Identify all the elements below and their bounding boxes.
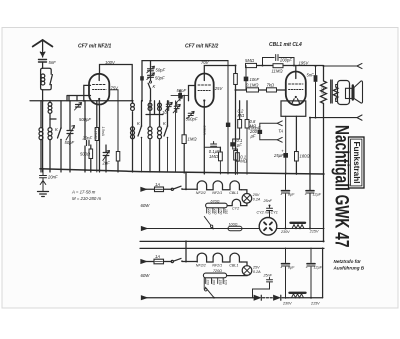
svg-text:0.15MΩ: 0.15MΩ (94, 128, 98, 140)
svg-text:CF7 mit NF2/2: CF7 mit NF2/2 (185, 44, 219, 50)
svg-text:230V: 230V (282, 302, 292, 306)
svg-text:K: K (163, 121, 166, 126)
svg-text:µF: µF (237, 142, 242, 147)
svg-text:1A: 1A (155, 182, 160, 187)
svg-text:1A: 1A (155, 254, 160, 259)
svg-text:CY2: CY2 (232, 207, 239, 211)
svg-text:NF2/1: NF2/1 (212, 191, 222, 195)
svg-text:12µF: 12µF (314, 266, 323, 270)
svg-text:7kΩ: 7kΩ (267, 83, 275, 88)
svg-text:60W: 60W (141, 203, 151, 208)
svg-text:50pF: 50pF (155, 76, 165, 81)
svg-text:10: 10 (162, 110, 167, 115)
svg-text:500pF: 500pF (186, 117, 198, 122)
svg-text:MΩ: MΩ (240, 159, 247, 164)
svg-text:12µF: 12µF (313, 193, 322, 197)
svg-text:0.2A: 0.2A (253, 270, 261, 274)
svg-text:Funkstrahl: Funkstrahl (352, 142, 361, 184)
svg-text:220: 220 (206, 279, 210, 286)
svg-text:2nF: 2nF (102, 161, 111, 166)
svg-text:µF: µF (251, 134, 256, 139)
svg-text:20nF: 20nF (47, 175, 58, 180)
svg-text:TA: TA (278, 128, 283, 133)
svg-text:20nF: 20nF (82, 136, 93, 141)
svg-text:195V: 195V (299, 61, 310, 66)
svg-text:10nF: 10nF (250, 77, 260, 82)
svg-text:A = 17-58 m: A = 17-58 m (71, 190, 96, 195)
svg-text:60W: 60W (141, 273, 151, 278)
svg-text:K: K (153, 84, 156, 89)
svg-text:25V: 25V (252, 193, 260, 197)
svg-text:500pF: 500pF (79, 117, 91, 122)
svg-text:CBL1 mit CL4: CBL1 mit CL4 (269, 42, 302, 48)
svg-text:230V: 230V (280, 230, 290, 234)
svg-text:11MΩ: 11MΩ (272, 69, 284, 74)
svg-text:670Ω: 670Ω (211, 199, 220, 203)
svg-text:50pF: 50pF (65, 140, 75, 145)
svg-text:200: 200 (212, 279, 216, 286)
svg-text:0.2A: 0.2A (253, 198, 261, 202)
svg-text:200: 200 (213, 208, 217, 215)
svg-text:100Ω: 100Ω (229, 223, 238, 227)
svg-text:25V: 25V (214, 86, 224, 91)
svg-text:220: 220 (207, 208, 211, 215)
svg-text:1MΩ: 1MΩ (209, 154, 219, 159)
svg-text:5MΩ: 5MΩ (245, 58, 255, 63)
svg-text:1.5mA: 1.5mA (101, 127, 105, 136)
svg-text:CBL1: CBL1 (229, 264, 238, 268)
svg-text:M = 210-280 m: M = 210-280 m (72, 196, 101, 201)
svg-text:25V: 25V (252, 266, 260, 270)
svg-text:25µF: 25µF (273, 153, 284, 158)
svg-text:K: K (55, 127, 58, 132)
svg-text:110: 110 (223, 280, 227, 285)
svg-text:0.1MΩ: 0.1MΩ (246, 83, 259, 88)
svg-text:150: 150 (218, 280, 222, 286)
svg-text:25nF: 25nF (263, 274, 273, 278)
svg-text:NF2/2: NF2/2 (196, 264, 206, 268)
svg-text:70V: 70V (201, 60, 210, 65)
svg-text:CBL1: CBL1 (229, 191, 238, 195)
svg-text:CF7 mit NF2/1: CF7 mit NF2/1 (78, 44, 112, 50)
svg-text:180Ω: 180Ω (300, 154, 311, 159)
svg-text:75V: 75V (111, 86, 120, 91)
svg-text:50pF: 50pF (177, 88, 187, 93)
svg-text:MΩ: MΩ (250, 124, 257, 129)
svg-text:50pF: 50pF (156, 68, 166, 73)
svg-text:200pF: 200pF (279, 58, 292, 63)
svg-text:MΩ: MΩ (238, 113, 245, 118)
svg-text:1MΩ: 1MΩ (188, 137, 198, 142)
svg-text:350Ω: 350Ω (321, 86, 325, 94)
svg-text:5nF: 5nF (307, 73, 315, 78)
svg-text:Ausführung B: Ausführung B (333, 266, 365, 271)
svg-text:NF2/2: NF2/2 (196, 191, 206, 195)
svg-text:500Ω: 500Ω (80, 152, 91, 157)
svg-text:K: K (137, 121, 140, 126)
svg-text:CY2 mit CY1: CY2 mit CY1 (257, 210, 278, 214)
svg-text:5nF: 5nF (49, 60, 57, 65)
svg-text:215V: 215V (309, 230, 319, 234)
svg-text:110: 110 (224, 209, 228, 214)
svg-text:720Ω: 720Ω (213, 269, 222, 273)
svg-text:0.9mA: 0.9mA (202, 126, 206, 135)
svg-text:NF2/1: NF2/1 (212, 264, 222, 268)
svg-text:100V: 100V (105, 60, 116, 65)
svg-text:Netztrafo für: Netztrafo für (334, 259, 362, 264)
svg-text:25nF: 25nF (263, 199, 273, 203)
svg-text:150: 150 (219, 209, 223, 215)
svg-text:8µF: 8µF (288, 193, 295, 197)
svg-text:215V: 215V (310, 302, 320, 306)
svg-text:8µF: 8µF (288, 266, 295, 270)
